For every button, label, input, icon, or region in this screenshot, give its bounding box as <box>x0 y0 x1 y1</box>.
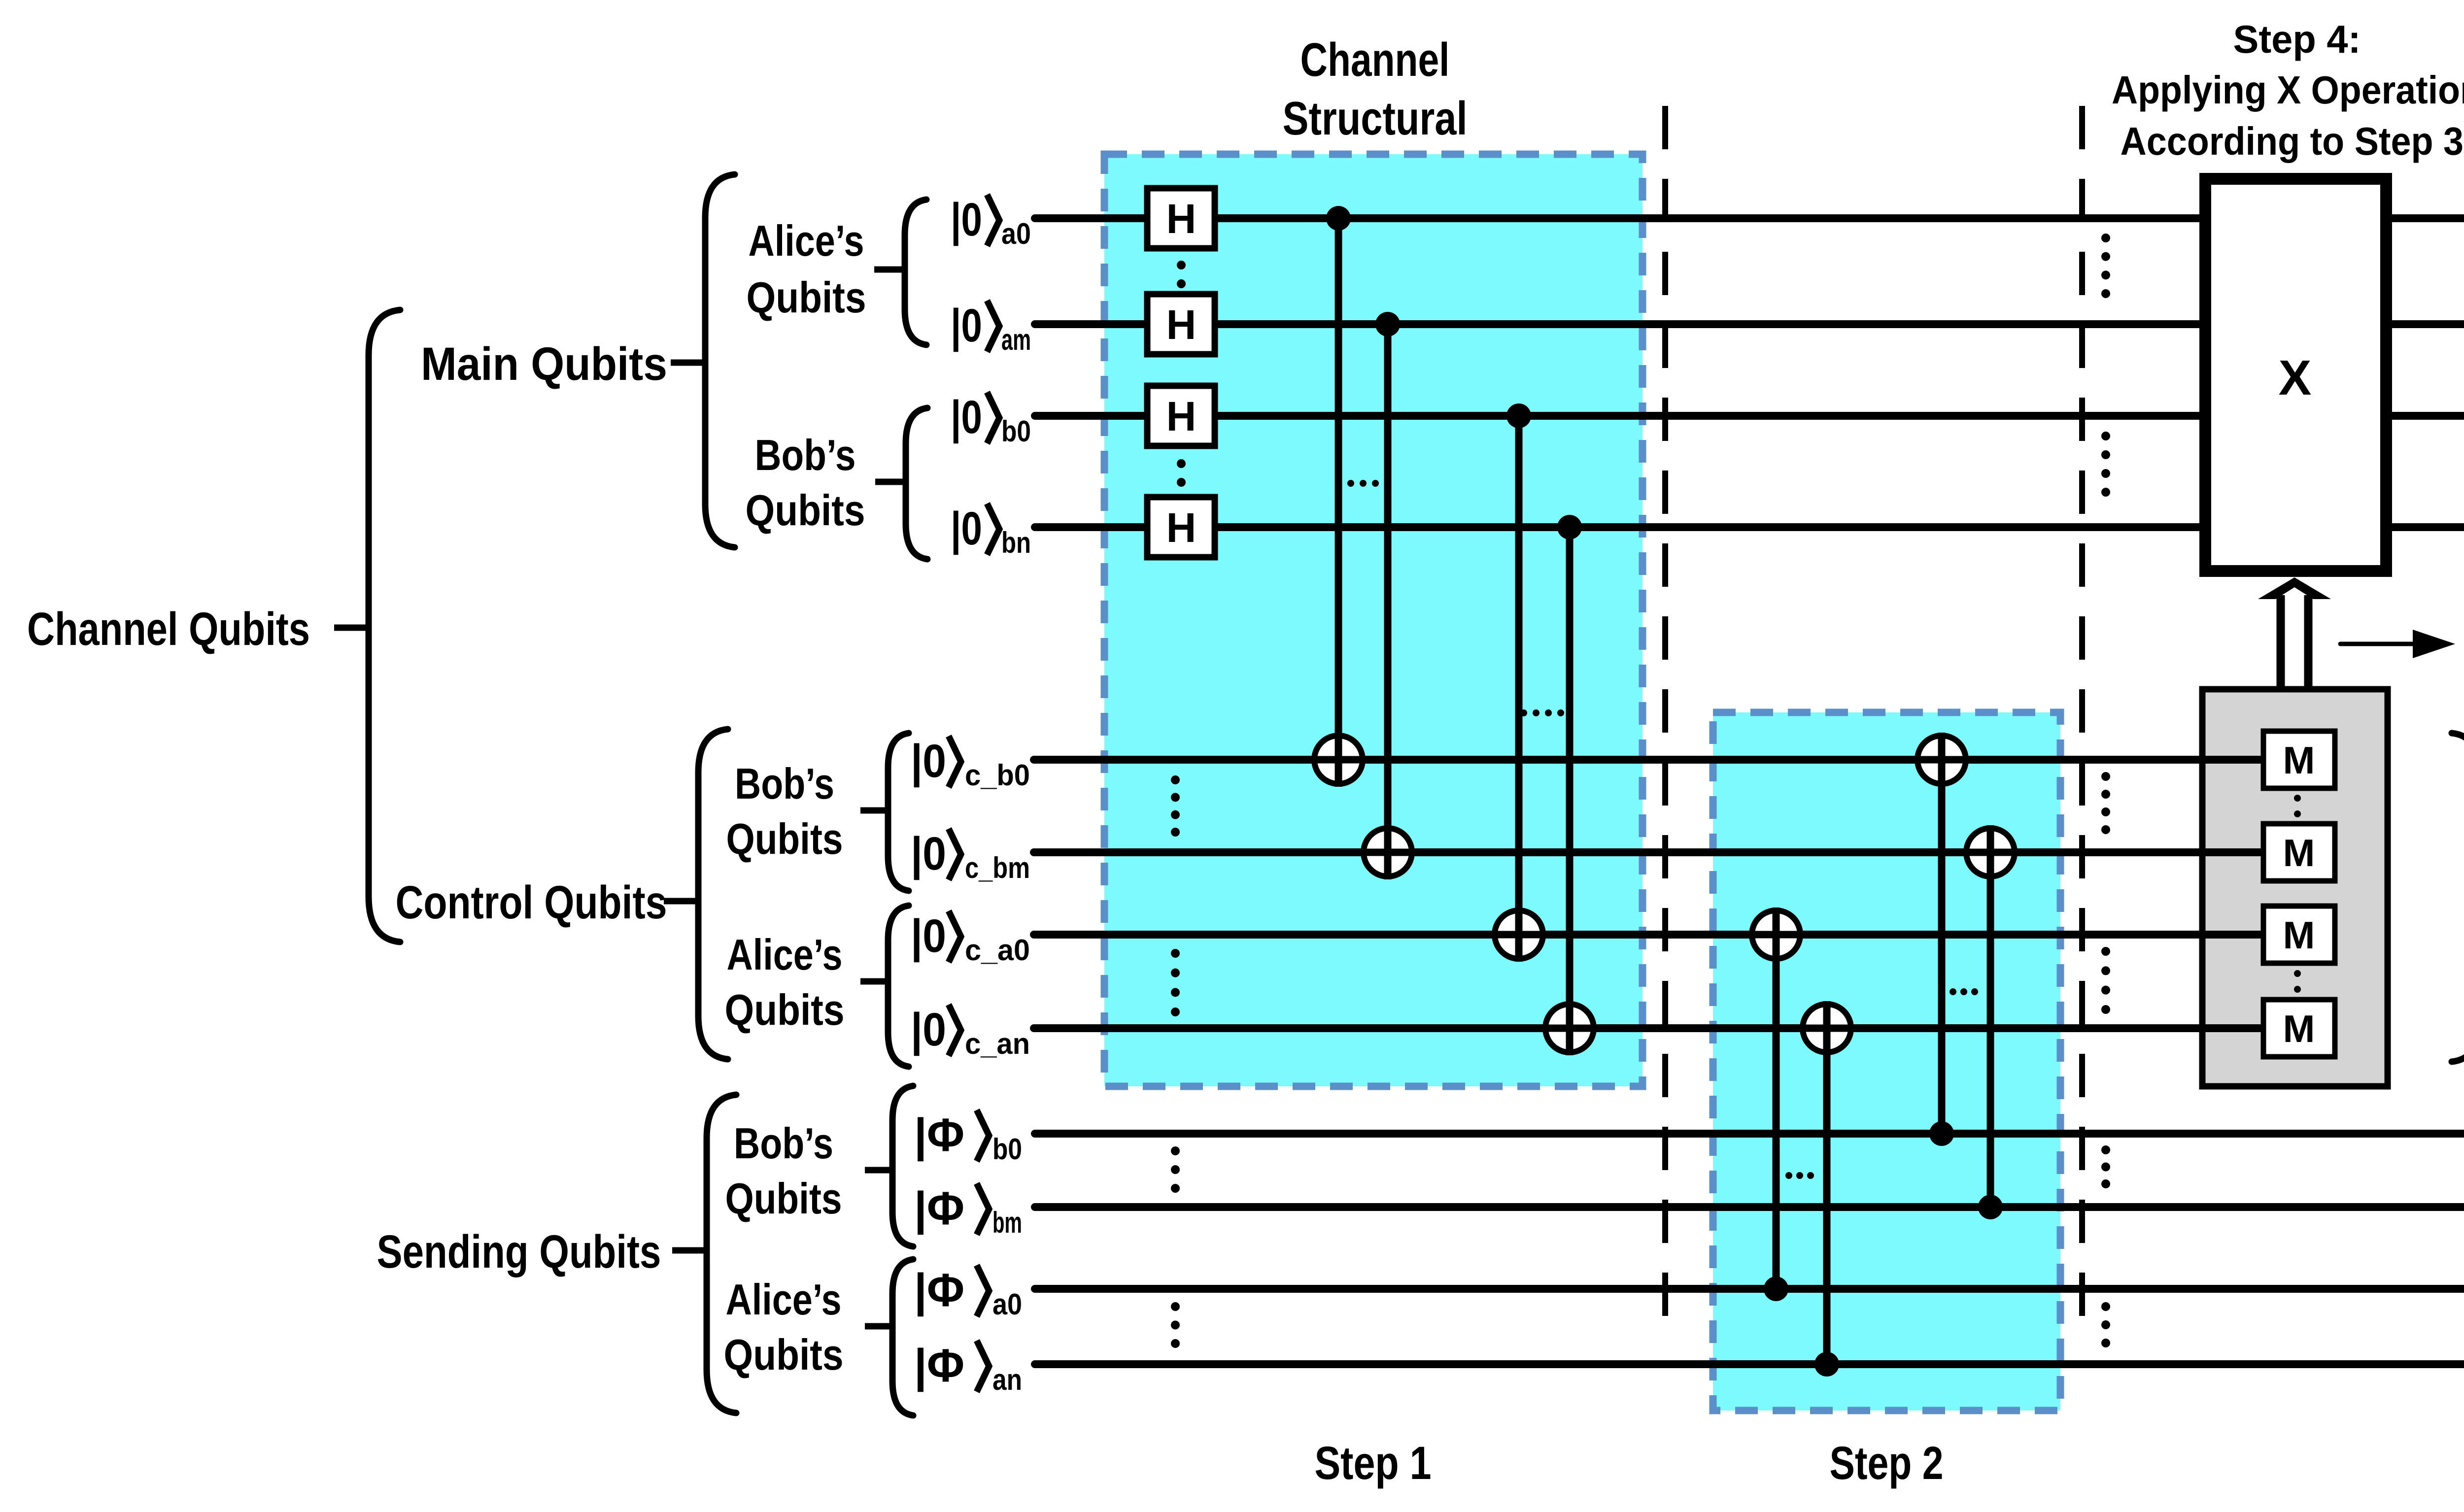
svg-text:b0: b0 <box>992 1133 1022 1166</box>
svg-text:Qubits: Qubits <box>724 1330 844 1379</box>
svg-text:|0: |0 <box>911 1004 946 1056</box>
svg-text:M: M <box>2283 831 2315 874</box>
svg-text:H: H <box>1166 393 1197 439</box>
svg-text:|0: |0 <box>951 300 982 352</box>
svg-text:Applying X Operation: Applying X Operation <box>2112 68 2464 112</box>
svg-text:a0: a0 <box>1001 217 1031 250</box>
svg-text:H: H <box>1166 302 1197 348</box>
svg-text:M: M <box>2283 1007 2315 1050</box>
svg-text:Channel Qubits: Channel Qubits <box>27 603 310 655</box>
svg-text:Control Qubits: Control Qubits <box>396 876 667 929</box>
svg-text:Qubits: Qubits <box>725 985 845 1034</box>
svg-text:bm: bm <box>992 1206 1022 1239</box>
svg-text:|0: |0 <box>951 391 982 443</box>
svg-text:|Φ: |Φ <box>914 1340 964 1392</box>
svg-text:Alice’s: Alice’s <box>726 1275 842 1324</box>
svg-text:Step 2: Step 2 <box>1830 1437 1944 1489</box>
svg-text:Qubits: Qubits <box>725 1174 842 1223</box>
svg-text:|0: |0 <box>951 503 982 555</box>
svg-text:Main Qubits: Main Qubits <box>421 338 667 390</box>
svg-text:|Φ: |Φ <box>914 1109 964 1161</box>
svg-text:a0: a0 <box>992 1288 1022 1321</box>
svg-text:Bob’s: Bob’s <box>734 1119 833 1168</box>
svg-text:c_an: c_an <box>965 1027 1030 1060</box>
svg-text:M: M <box>2283 739 2315 782</box>
svg-text:|0: |0 <box>911 910 946 962</box>
svg-text:c_bm: c_bm <box>965 851 1030 884</box>
svg-text:|0: |0 <box>951 194 982 246</box>
svg-text:|0: |0 <box>911 735 946 787</box>
svg-text:am: am <box>1001 323 1031 356</box>
svg-text:|0: |0 <box>911 828 946 880</box>
svg-text:Alice’s: Alice’s <box>749 216 864 265</box>
svg-text:According to Step 3.: According to Step 3. <box>2121 119 2464 163</box>
svg-text:M: M <box>2283 913 2315 957</box>
svg-text:Step 4:: Step 4: <box>2233 17 2361 61</box>
svg-text:c_a0: c_a0 <box>965 934 1030 967</box>
svg-text:|Φ: |Φ <box>914 1264 964 1316</box>
svg-text:H: H <box>1166 504 1197 551</box>
svg-text:Bob’s: Bob’s <box>735 759 834 808</box>
svg-text:H: H <box>1166 196 1197 242</box>
svg-text:Structural: Structural <box>1283 92 1468 145</box>
svg-text:an: an <box>992 1363 1022 1396</box>
svg-text:c_b0: c_b0 <box>965 759 1030 792</box>
svg-text:|Φ: |Φ <box>914 1182 964 1235</box>
svg-text:Sending Qubits: Sending Qubits <box>377 1226 661 1278</box>
svg-text:X: X <box>2279 350 2312 405</box>
svg-text:Qubits: Qubits <box>747 273 866 322</box>
svg-text:Channel: Channel <box>1300 34 1450 86</box>
svg-text:Step 1: Step 1 <box>1315 1437 1432 1489</box>
svg-text:Bob’s: Bob’s <box>755 431 856 479</box>
svg-text:Qubits: Qubits <box>746 486 865 535</box>
svg-text:bn: bn <box>1001 526 1031 559</box>
svg-text:Qubits: Qubits <box>726 814 843 863</box>
svg-text:b0: b0 <box>1001 415 1031 448</box>
svg-text:Alice’s: Alice’s <box>727 930 843 979</box>
